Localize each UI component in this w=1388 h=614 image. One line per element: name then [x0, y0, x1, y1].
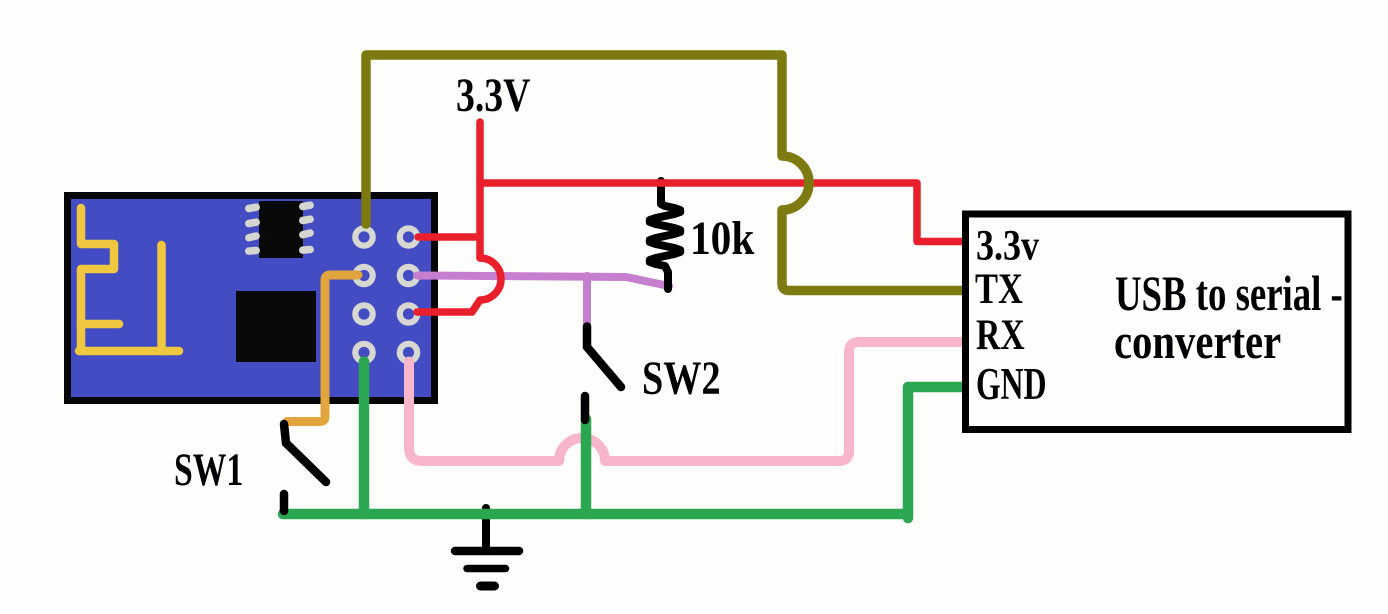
pin hole 3 row2-left: [352, 264, 376, 288]
svg-text:SW2: SW2: [642, 352, 721, 405]
wire green ground bus: [283, 509, 908, 520]
antenna trace: [79, 208, 179, 351]
pin hole 6 row3-right: [397, 302, 421, 326]
svg-text:10k: 10k: [690, 211, 754, 265]
svg-text:SW1: SW1: [174, 444, 243, 496]
pin hole 7 bottom-left: [352, 341, 376, 365]
wire orange from pin L2 down to SW1: [287, 275, 358, 422]
wire plum branch down to SW2: [583, 276, 591, 326]
svg-text:TX: TX: [975, 265, 1023, 313]
svg-text:3.3v: 3.3v: [976, 220, 1039, 269]
ESP8266 module board: [68, 196, 435, 401]
pin label 3.3v: [976, 220, 1039, 269]
wire green from SW2 bottom to bus: [581, 419, 592, 514]
chip U1 legs: [244, 201, 314, 255]
wire green from bus up to GND of converter: [908, 387, 962, 518]
pin hole 1 top-left: [352, 225, 376, 249]
wire plum from pin R2 to resistor bottom: [417, 276, 669, 287]
switch SW1: [284, 424, 326, 511]
label 3.3V top: [456, 70, 530, 122]
svg-text:3.3V: 3.3V: [456, 70, 530, 122]
pin hole 8 bottom-right: [397, 341, 421, 365]
pin hole 4 row2-right: [397, 264, 421, 288]
ground: [455, 508, 519, 586]
pin hole 5 row3-left: [352, 302, 376, 326]
chip U1 body: [259, 201, 303, 258]
resistor R1: [650, 181, 680, 289]
label 10k: [690, 211, 754, 265]
USB to serial converter box: [966, 214, 1349, 430]
pin label GND: [976, 358, 1046, 409]
svg-text:RX: RX: [976, 311, 1025, 359]
pin label TX: [975, 265, 1023, 313]
label USB to serial converter: [1115, 267, 1343, 322]
wire red 3.3V rail horizontal to converter: [480, 183, 962, 242]
wire red 3.3V vertical drop below label: [476, 122, 484, 258]
switch SW2: [585, 327, 621, 421]
svg-text:GND: GND: [976, 358, 1046, 409]
wire pink from pin R4 to RX with hop over green: [409, 342, 962, 461]
wire green from pin L4 down to ground bus: [359, 362, 370, 515]
label SW2: [642, 352, 721, 405]
svg-text:converter: converter: [1114, 313, 1281, 369]
pin label RX: [976, 311, 1025, 359]
label SW1: [174, 444, 243, 496]
wire olive from pin L1 up over to TX with hop over red: [366, 55, 962, 291]
pin hole 2 top-right: [397, 225, 421, 249]
chip U2: [236, 291, 316, 362]
wire red hop over plum wire down to pin R3: [417, 258, 501, 312]
wire red stub from pin R1 to 3.3V rail: [418, 233, 480, 241]
